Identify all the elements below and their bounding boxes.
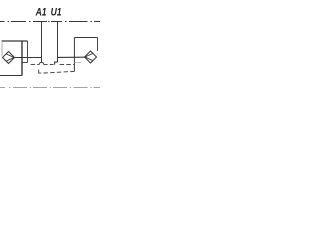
wire: valve A1 outlet to A1 line [15,57,42,59]
check valve V2 diamond [85,51,97,63]
wire: A1 vertical line [41,22,43,63]
valve body A1: top edge [2,40,28,42]
check valve V2 seat [85,53,93,60]
svg-text:A1: A1 [35,7,47,19]
svg-text:U1: U1 [51,7,62,19]
valve body U1: right edge [97,38,99,52]
valve body A1: bottom stub [22,62,28,64]
wire: tank line bottom left [0,75,22,77]
valve body A1: right edge [27,41,29,63]
wire: U1 vertical line [57,22,59,63]
valve body A1: left edge (faint) [1,41,3,56]
pilot line row1 (dashed) left part [31,64,40,66]
pilot line hop over A1 line [39,62,44,64]
wire: drain drop line through body A1 [21,41,23,76]
pilot line row1 (dashed) right of hop [44,64,55,66]
valve body U1: bottom edge (faint) [74,62,81,64]
wire: bottom dash-dot centerline [0,87,100,89]
wire: U1 line to valve V2 inlet [58,56,85,58]
check valve V1 seat [6,54,14,61]
pilot line row1 (dashed) continues to right body [60,64,75,66]
pilot line row2 (dashed) [44,71,75,73]
wire: top dash-dot centerline [0,21,100,23]
valve body U1: top edge [74,37,97,39]
valve body U1: left edge / pilot drop [73,38,75,72]
pilot line row2 left corner [39,70,42,74]
check valve V1 diamond [3,52,15,64]
pilot jog up to U1 line [55,62,58,65]
